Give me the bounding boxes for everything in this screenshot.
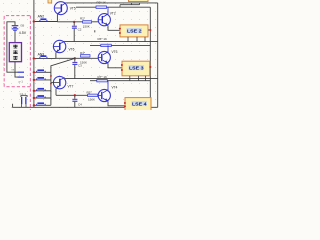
svg-text:R2*: R2* <box>80 17 86 21</box>
battery GB 4.5V <box>12 25 19 31</box>
wire battery loop top <box>7 22 18 72</box>
ladder button 5 <box>34 102 51 105</box>
svg-text:p-1: p-1 <box>19 80 24 84</box>
ladder button 3 <box>34 88 51 91</box>
svg-text:VT7: VT7 <box>68 85 74 89</box>
svg-text:R3* 1K: R3* 1K <box>97 0 107 4</box>
polarity dots <box>11 68 14 71</box>
wire VT7 emitter <box>55 89 57 96</box>
right inner vertical rail <box>149 7 151 103</box>
ladder button 4 <box>34 95 51 98</box>
collector rail stage2 <box>65 41 158 43</box>
music box LAE1 (cut at top) <box>120 0 148 7</box>
right outer vertical rail <box>157 3 159 107</box>
junction dot AN3 <box>33 57 35 59</box>
wire VT4 emitter to box4 <box>108 101 125 106</box>
transistor VT4 <box>98 81 110 102</box>
capacitor C1 (bottom left) <box>20 92 28 107</box>
transistor VT3 <box>98 45 110 63</box>
music box LSE3 <box>122 61 151 80</box>
svg-text:AN2: AN2 <box>38 14 45 18</box>
resistor R4* 150K <box>80 51 90 65</box>
wire VT3 emitter to box3 <box>108 63 122 68</box>
junction dot stage1 <box>73 21 75 23</box>
alarm unit box BL <box>9 43 21 62</box>
transistor VT7 <box>51 76 66 88</box>
svg-text:LSE 4: LSE 4 <box>132 102 147 107</box>
resistor R2* 150K <box>80 17 92 29</box>
wire VT6 emitter <box>55 53 57 59</box>
music box LAE2 <box>120 25 150 42</box>
collector rail stage1 <box>66 2 158 4</box>
emitter rail stage2 <box>56 57 98 59</box>
small box (top) <box>48 0 52 3</box>
resistor R3 1K rail stage1 <box>76 0 150 8</box>
left rail <box>33 0 35 107</box>
svg-text:R4*: R4* <box>80 51 86 55</box>
svg-text:VT6: VT6 <box>69 48 75 52</box>
capacitor C3 <box>72 58 82 78</box>
contact plate 2 <box>18 77 25 78</box>
emitter rail stage1 <box>57 21 98 23</box>
wire box bottom to plate2 <box>15 62 18 77</box>
wire battery to box <box>14 31 16 43</box>
resistor R5* 150K <box>87 90 98 101</box>
music box LSE4 <box>125 98 151 112</box>
pushbutton AN3 <box>34 53 56 59</box>
resistor R6 1K rail stage2 <box>90 37 150 46</box>
junction dot stage3 <box>74 94 76 96</box>
svg-text:R7* 1K: R7* 1K <box>98 75 108 79</box>
svg-text:VT5: VT5 <box>70 6 76 10</box>
svg-text:4.5V: 4.5V <box>19 31 27 35</box>
svg-text:150K: 150K <box>80 61 87 65</box>
box3 input dots <box>121 64 123 66</box>
svg-text:150K: 150K <box>83 25 90 29</box>
junction dot AN2 <box>33 20 35 22</box>
contact plate 1 <box>18 72 25 73</box>
svg-text:GB: GB <box>20 24 24 28</box>
capacitor C2 <box>72 22 82 42</box>
ladder button 1 <box>34 69 51 72</box>
svg-text:150K: 150K <box>88 97 95 101</box>
transistor VT2 <box>98 7 110 26</box>
svg-text:LSE 3: LSE 3 <box>129 66 144 71</box>
emitter rail stage3 <box>56 94 98 96</box>
capacitor C4 <box>72 95 82 107</box>
junction dot stage2 <box>74 57 76 59</box>
wire VT5 emitter <box>56 14 58 21</box>
transistor VT5 <box>54 2 67 15</box>
resistor R7 1K rail stage3 <box>90 75 150 82</box>
wire VT2 emitter to box2 <box>95 26 120 33</box>
svg-text:R6* 1K: R6* 1K <box>98 37 108 41</box>
transistor VT6 <box>53 40 65 52</box>
ladder button 2 <box>34 77 51 80</box>
pushbutton AN2 <box>34 14 58 21</box>
dashed enclosure (alarm unit) <box>4 16 30 110</box>
box2 input dots <box>119 28 121 30</box>
button ladder right rail + diagonal <box>51 58 75 105</box>
svg-text:VT3: VT3 <box>112 50 118 54</box>
box4 input dots <box>124 102 126 104</box>
bottom rail <box>13 104 158 108</box>
svg-text:VT4: VT4 <box>112 86 118 90</box>
svg-text:C4: C4 <box>78 103 82 107</box>
svg-text:LSE 2: LSE 2 <box>127 29 142 34</box>
svg-text:C2: C2 <box>78 27 82 31</box>
collector rail stage3 <box>65 78 158 80</box>
svg-text:VT2: VT2 <box>110 12 116 16</box>
svg-text:R5*: R5* <box>87 90 93 94</box>
right rail dots <box>50 75 52 77</box>
